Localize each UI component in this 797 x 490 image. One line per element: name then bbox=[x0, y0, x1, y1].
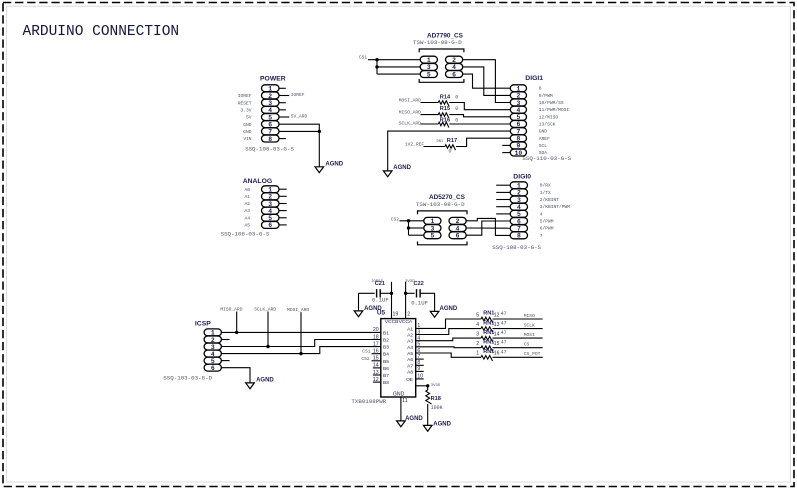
svg-text:6: 6 bbox=[452, 71, 456, 78]
svg-text:6: 6 bbox=[211, 365, 215, 372]
AD5270_CS top bracket bbox=[418, 211, 468, 214]
svg-text:MISO: MISO bbox=[524, 313, 535, 319]
resistor body resistor R14 bbox=[438, 101, 449, 106]
connector POWER pin 8 bbox=[262, 135, 280, 143]
ground AGND digi1 bbox=[383, 165, 411, 177]
svg-text:AREF: AREF bbox=[539, 136, 550, 142]
svg-text:0: 0 bbox=[449, 148, 452, 154]
svg-text:TSW-103-08-G-D: TSW-103-08-G-D bbox=[413, 39, 462, 46]
svg-text:AGND: AGND bbox=[256, 378, 274, 384]
connector POWER pin 2 bbox=[262, 92, 280, 100]
wire DIGI0 pin 3 stub bbox=[496, 199, 510, 201]
svg-text:0: 0 bbox=[455, 118, 458, 124]
svg-text:IOREF: IOREF bbox=[291, 92, 305, 98]
svg-text:2/KBINT: 2/KBINT bbox=[540, 197, 560, 203]
svg-text:AGND: AGND bbox=[364, 306, 382, 312]
svg-text:6: 6 bbox=[456, 233, 460, 240]
connector ANALOG pin 3 bbox=[262, 200, 280, 208]
svg-text:ANALOG: ANALOG bbox=[243, 178, 272, 185]
svg-text:SSQ-106-03-G-S: SSQ-106-03-G-S bbox=[221, 230, 270, 237]
svg-text:AGND: AGND bbox=[433, 422, 451, 428]
svg-text:RN1: RN1 bbox=[483, 330, 494, 336]
connector DIGI0 pin 7 bbox=[510, 225, 527, 233]
resistor body resistor R16 bbox=[438, 122, 449, 127]
svg-text:R18: R18 bbox=[431, 396, 441, 402]
connector ICSP pin 2 bbox=[204, 336, 221, 344]
connector POWER pin 1 bbox=[262, 85, 280, 93]
svg-text:SSQ-108-03-G-S: SSQ-108-03-G-S bbox=[492, 244, 541, 251]
svg-text:TSW-103-08-G-D: TSW-103-08-G-D bbox=[416, 201, 465, 208]
svg-text:1/TX: 1/TX bbox=[540, 190, 551, 196]
wire C22 left wire bbox=[406, 292, 415, 294]
wire ICSP pin3 to U5 B2 bbox=[221, 340, 380, 347]
wire CS2 stub to B5 bbox=[372, 360, 381, 362]
connector DIGI0 pin 2 bbox=[510, 189, 527, 197]
wire POWER pin 8 stub bbox=[279, 138, 286, 140]
connector DIGI0 pin 5 bbox=[510, 210, 527, 218]
junction OE r18 tie bbox=[426, 384, 429, 387]
wire U5 A6 stub bbox=[416, 358, 424, 360]
wire ANALOG pin 2 stub bbox=[279, 195, 287, 197]
wire ICSP pin1 to U5 B1 bbox=[221, 331, 380, 333]
wire DIGI1 pin7 gnd bbox=[388, 131, 511, 171]
svg-text:VCCA: VCCA bbox=[399, 319, 413, 325]
wire DIGI1 pin10 stub bbox=[502, 152, 510, 154]
wire ANALOG pin 1 stub bbox=[279, 188, 287, 190]
wire C21 left wire bbox=[359, 292, 375, 294]
svg-text:SCLK_ARD: SCLK_ARD bbox=[254, 306, 276, 312]
svg-text:3/KBINT/PWM: 3/KBINT/PWM bbox=[540, 204, 571, 210]
svg-text:SSQ-103-03-G-D: SSQ-103-03-G-D bbox=[163, 375, 212, 382]
svg-text:POWER: POWER bbox=[260, 76, 286, 83]
wire R17 to DIGI1 pin8 bbox=[456, 138, 510, 146]
svg-text:A0: A0 bbox=[244, 187, 250, 193]
connector ICSP pin 6 bbox=[204, 364, 221, 372]
wire RN1 row3 out bbox=[493, 337, 543, 339]
wire ANALOG pin 3 stub bbox=[279, 203, 287, 205]
wire U5 pin2 VCCA rail bbox=[405, 282, 407, 319]
wire AD5270 pin6 to DIGI0 pin6 bbox=[466, 221, 510, 235]
wire CS2 to pin5 bbox=[409, 234, 424, 236]
svg-text:A6: A6 bbox=[407, 357, 413, 363]
svg-text:3.3V: 3.3V bbox=[240, 107, 251, 113]
wire ICSP pin2 stub bbox=[221, 339, 229, 341]
wire U5 A7 stub bbox=[416, 364, 424, 366]
svg-text:CS2: CS2 bbox=[361, 356, 370, 362]
wire U5 B8 stub bbox=[373, 381, 381, 383]
resistor body resistor R17 bbox=[445, 145, 456, 150]
capacitor C21 0.1UF bbox=[372, 289, 389, 303]
connector DIGI1 pin 3 bbox=[510, 99, 526, 107]
wire CS1 bus drop bbox=[376, 60, 378, 74]
svg-text:RN1: RN1 bbox=[483, 320, 494, 326]
AD5270_CS pin 4 bbox=[449, 225, 466, 233]
svg-text:5V: 5V bbox=[246, 115, 252, 121]
wire MOSI_ARD to R14 bbox=[421, 102, 439, 104]
svg-text:SSQ-108-03-G-S: SSQ-108-03-G-S bbox=[245, 145, 294, 152]
connector DIGI1 pin 5 bbox=[510, 113, 526, 121]
svg-text:5V_ARD: 5V_ARD bbox=[291, 113, 308, 119]
connector ICSP pin 1 bbox=[204, 329, 221, 337]
connector ANALOG pin 1 bbox=[262, 186, 280, 194]
wire ICSP pin4 to U5 B3 bbox=[221, 347, 380, 354]
svg-text:SCLK_ARD: SCLK_ARD bbox=[399, 121, 421, 127]
wire SCLK_ARD to R16 bbox=[421, 123, 439, 125]
wire ICSP pin6 gnd bbox=[221, 368, 250, 383]
svg-text:12/MISO: 12/MISO bbox=[539, 114, 559, 120]
wire AD5270 pin4 to DIGI0 pin7 bbox=[466, 227, 510, 229]
svg-text:A5: A5 bbox=[407, 351, 413, 357]
svg-text:A1: A1 bbox=[407, 326, 413, 332]
wire CS2 to pin1 bbox=[400, 220, 424, 222]
svg-text:47: 47 bbox=[501, 340, 507, 346]
AD7790_CS pin 6 bbox=[446, 71, 463, 79]
wire ANALOG pin 6 stub bbox=[279, 224, 287, 226]
wire MOSI_ARD drop bbox=[300, 312, 302, 353]
wire U5 pin11 gnd bbox=[400, 397, 402, 421]
junction C21 rail tie bbox=[390, 292, 393, 295]
svg-text:SCLK: SCLK bbox=[524, 322, 535, 328]
svg-text:13/SCK: 13/SCK bbox=[539, 122, 556, 128]
wire 1V2_REF to R17 bbox=[424, 146, 445, 148]
svg-text:RN1: RN1 bbox=[483, 339, 494, 345]
wire DIGI0 pin 4 stub bbox=[496, 206, 510, 208]
connector DIGI1 pin 9 bbox=[510, 142, 526, 150]
svg-text:R14: R14 bbox=[440, 94, 451, 100]
AD7790_CS pin 5 bbox=[420, 71, 437, 79]
svg-text:GND: GND bbox=[393, 392, 405, 398]
capacitor C22 0.1UF bbox=[411, 289, 428, 306]
svg-text:4: 4 bbox=[540, 211, 543, 217]
svg-text:RESET: RESET bbox=[238, 100, 252, 106]
svg-text:IOREF: IOREF bbox=[238, 93, 252, 99]
resistor body resistor RN1 element 1-16 bbox=[481, 356, 493, 361]
connector ANALOG pin 5 bbox=[262, 214, 280, 222]
wire POWER pin 7 gnd bbox=[279, 130, 319, 132]
wire R16 to DIGI1 pin6 bbox=[449, 123, 510, 125]
svg-text:0/RX: 0/RX bbox=[540, 183, 551, 189]
connector DIGI1 pin 2 bbox=[510, 92, 526, 100]
svg-text:A4: A4 bbox=[407, 345, 413, 351]
ground AGND icsp bbox=[246, 378, 275, 389]
svg-text:C22: C22 bbox=[414, 281, 424, 287]
connector ANALOG pin 2 bbox=[262, 193, 280, 201]
AD5270_CS pin 6 bbox=[449, 232, 466, 240]
wire R18 bottom wire bbox=[427, 404, 429, 425]
junction CS1 t2 bbox=[375, 65, 378, 68]
wire U5 A8 stub bbox=[416, 370, 424, 372]
wire U5 B7 stub bbox=[373, 374, 381, 376]
wire ANALOG pin 5 stub bbox=[279, 217, 287, 219]
junction POWER gnd tie bbox=[318, 130, 321, 133]
svg-text:MISO_ARD: MISO_ARD bbox=[399, 109, 421, 115]
svg-text:R16: R16 bbox=[440, 118, 450, 124]
wire MISO_ARD drop bbox=[236, 312, 238, 333]
AD7790_CS pin 1 bbox=[420, 56, 437, 64]
svg-text:8: 8 bbox=[517, 233, 521, 240]
svg-text:10/PWM/SS: 10/PWM/SS bbox=[539, 100, 564, 106]
wire CS2 to pin3 bbox=[409, 227, 424, 229]
svg-text:9/PWM: 9/PWM bbox=[539, 93, 553, 99]
wire CS1 to pin5 bbox=[377, 73, 420, 75]
connector DIGI1 pin 6 bbox=[510, 121, 526, 129]
wire RN1 row4 out bbox=[493, 347, 543, 349]
svg-text:15: 15 bbox=[494, 341, 500, 347]
svg-text:CS1: CS1 bbox=[362, 349, 371, 355]
wire AD7790 pin6 to DIGI1 pin1 bbox=[463, 74, 511, 88]
svg-text:DNI: DNI bbox=[437, 140, 444, 144]
svg-text:VIN: VIN bbox=[243, 136, 252, 142]
wire POWER pin 2 to IOREF bbox=[279, 95, 289, 97]
svg-text:R17: R17 bbox=[447, 138, 457, 144]
svg-text:47: 47 bbox=[501, 330, 507, 336]
resistor body resistor R18 bbox=[426, 390, 432, 404]
svg-text:DIGI0: DIGI0 bbox=[513, 173, 531, 180]
svg-text:CS: CS bbox=[524, 342, 530, 348]
AD5270_CS pin 3 bbox=[424, 225, 441, 233]
wire U5 A5 to RN1 row5 bbox=[416, 353, 481, 357]
AD7790_CS pin 4 bbox=[446, 64, 463, 72]
svg-text:2: 2 bbox=[407, 312, 410, 318]
AD7790_CS pin 3 bbox=[420, 64, 437, 72]
wire POWER pin 3 stub bbox=[279, 102, 286, 104]
svg-text:4: 4 bbox=[476, 322, 479, 328]
svg-text:A4: A4 bbox=[244, 215, 250, 221]
resistor body resistor R15 bbox=[438, 113, 449, 118]
connector POWER pin 7 bbox=[262, 128, 280, 136]
svg-text:6/PWM: 6/PWM bbox=[540, 226, 554, 232]
svg-text:VCCB: VCCB bbox=[385, 319, 399, 325]
wire C21 gnd drop bbox=[358, 293, 360, 311]
resistor body resistor RN1 element 2-15 bbox=[481, 346, 493, 351]
connector POWER pin 3 bbox=[262, 99, 280, 107]
wire POWER pin 6 gnd bbox=[279, 124, 319, 167]
wire U5 OE stub bbox=[416, 378, 424, 380]
ground AGND c21 bbox=[354, 306, 382, 317]
svg-text:7: 7 bbox=[540, 233, 543, 239]
svg-text:B5: B5 bbox=[383, 359, 389, 365]
svg-text:CS2: CS2 bbox=[391, 216, 400, 222]
connector ICSP pin 5 bbox=[204, 357, 221, 365]
wire POWER pin 1 stub bbox=[279, 87, 286, 89]
svg-text:10: 10 bbox=[515, 150, 523, 157]
svg-text:B6: B6 bbox=[383, 366, 389, 372]
svg-text:12: 12 bbox=[494, 312, 500, 318]
AD7790_CS top bracket bbox=[419, 49, 464, 52]
connector DIGI1 pin 4 bbox=[510, 106, 526, 114]
ground AGND u5 bbox=[397, 416, 424, 427]
junction CS2 t1 bbox=[407, 219, 410, 222]
svg-text:SCL: SCL bbox=[539, 143, 548, 149]
svg-text:0.1UF: 0.1UF bbox=[372, 297, 389, 304]
svg-text:3V3D: 3V3D bbox=[431, 384, 441, 388]
ground AGND power bbox=[315, 161, 344, 172]
junction mosi tie bbox=[299, 352, 302, 355]
connector DIGI0 pin 4 bbox=[510, 203, 527, 211]
svg-text:ICSP: ICSP bbox=[195, 321, 211, 328]
wire ICSP pin5 stub bbox=[221, 360, 229, 362]
svg-text:3: 3 bbox=[476, 332, 479, 338]
wire R15 to DIGI1 pin5 bbox=[449, 115, 510, 117]
svg-text:MOSI_ARD: MOSI_ARD bbox=[399, 98, 421, 104]
svg-text:2: 2 bbox=[476, 341, 479, 347]
wire C22 right wire bbox=[420, 293, 435, 311]
resistor body resistor RN1 element 3-14 bbox=[481, 336, 493, 341]
svg-text:5: 5 bbox=[476, 312, 479, 318]
svg-text:A3: A3 bbox=[244, 208, 250, 214]
svg-text:1: 1 bbox=[476, 351, 479, 357]
AD5270_CS pin 2 bbox=[449, 217, 466, 225]
svg-text:AGND: AGND bbox=[440, 306, 458, 312]
svg-text:AGND: AGND bbox=[405, 416, 423, 422]
wire CS2 bus drop bbox=[408, 221, 410, 235]
svg-text:GND: GND bbox=[539, 129, 548, 135]
op-amp U5 body (TXB0108PWR level shifter) bbox=[381, 319, 416, 397]
svg-text:B1: B1 bbox=[383, 330, 389, 336]
wire DIGI0 pin 2 stub bbox=[496, 191, 510, 193]
svg-text:B3: B3 bbox=[383, 345, 389, 351]
wire POWER pin 4 stub bbox=[279, 109, 286, 111]
wire U5 A3 to RN1 row3 bbox=[416, 338, 481, 341]
connector ANALOG pin 6 bbox=[262, 222, 280, 230]
svg-text:SSQ-110-03-G-S: SSQ-110-03-G-S bbox=[522, 155, 571, 162]
connector DIGI1 pin 1 bbox=[510, 85, 526, 93]
wire U5 OE net to R18 bbox=[416, 385, 428, 387]
svg-text:A7: A7 bbox=[407, 363, 413, 369]
svg-text:47: 47 bbox=[501, 321, 507, 327]
junction CS1 t1 bbox=[375, 58, 378, 61]
svg-text:5: 5 bbox=[427, 71, 431, 78]
svg-text:B8: B8 bbox=[383, 380, 389, 386]
svg-text:14: 14 bbox=[494, 332, 500, 338]
wire U5 A4 to RN1 row4 bbox=[416, 346, 481, 349]
connector POWER pin 4 bbox=[262, 106, 280, 114]
svg-text:AGND: AGND bbox=[325, 161, 343, 167]
junction CS2 t2 bbox=[407, 226, 410, 229]
svg-text:R15: R15 bbox=[440, 106, 450, 112]
svg-text:100K: 100K bbox=[431, 405, 443, 411]
svg-text:0.1UF: 0.1UF bbox=[411, 299, 428, 306]
svg-text:GND: GND bbox=[243, 129, 252, 135]
wire CS1 to pin1 bbox=[368, 59, 420, 61]
AD7790_CS bottom bracket bbox=[419, 79, 464, 82]
svg-text:A8: A8 bbox=[407, 369, 413, 375]
svg-text:19: 19 bbox=[393, 312, 399, 318]
connector ICSP pin 3 bbox=[204, 343, 221, 351]
svg-text:CS1: CS1 bbox=[359, 55, 368, 61]
svg-text:47: 47 bbox=[501, 311, 507, 317]
svg-text:TXB0108PWR: TXB0108PWR bbox=[351, 398, 386, 405]
svg-text:47: 47 bbox=[501, 349, 507, 355]
ground AGND r18 bbox=[423, 422, 451, 432]
wire RN1 row1 out bbox=[493, 318, 543, 320]
svg-text:B2: B2 bbox=[383, 338, 389, 344]
wire MISO_ARD to R15 bbox=[421, 114, 439, 116]
wire DIGI0 pin 1 stub bbox=[496, 184, 510, 186]
wire C21 right wire bbox=[380, 292, 391, 294]
AD5270_CS pin 5 bbox=[424, 232, 441, 240]
svg-text:MISO_ARD: MISO_ARD bbox=[220, 306, 242, 312]
svg-text:A1: A1 bbox=[244, 194, 250, 200]
svg-text:ARDUINO CONNECTION: ARDUINO CONNECTION bbox=[23, 24, 180, 40]
connector DIGI1 pin 8 bbox=[510, 135, 526, 143]
svg-text:AGND: AGND bbox=[393, 165, 411, 171]
AD5270_CS bottom bracket bbox=[418, 242, 468, 245]
connector POWER pin 5 bbox=[262, 114, 280, 122]
svg-text:A2: A2 bbox=[244, 201, 250, 207]
wire SCLK_ARD drop bbox=[267, 312, 269, 347]
junction miso tie bbox=[235, 331, 238, 334]
connector ANALOG pin 4 bbox=[262, 207, 280, 215]
wire ANALOG pin 4 stub bbox=[279, 210, 287, 212]
svg-text:16: 16 bbox=[494, 351, 500, 357]
wire DIGI0 pin 5 stub bbox=[496, 213, 510, 215]
svg-text:0: 0 bbox=[455, 94, 458, 100]
wire AD7790 pin2 to DIGI1 pin3 bbox=[463, 60, 511, 103]
resistor body resistor RN1 element 5-12 bbox=[481, 317, 493, 322]
wire RN1 row2 out bbox=[493, 328, 543, 330]
svg-text:8: 8 bbox=[539, 86, 542, 92]
svg-text:13: 13 bbox=[494, 322, 500, 328]
connector DIGI0 pin 6 bbox=[510, 218, 527, 226]
svg-text:B4: B4 bbox=[383, 352, 389, 358]
connector ICSP pin 4 bbox=[204, 350, 221, 358]
wire POWER pin 5 to 5V_ARD bbox=[279, 116, 289, 118]
svg-text:OE: OE bbox=[406, 377, 413, 383]
wire U5 A1 to RN1 row1 bbox=[416, 319, 481, 328]
svg-text:RN1: RN1 bbox=[483, 349, 494, 355]
wire DIGI1 pin9 stub bbox=[502, 144, 510, 146]
wire CS1 stub to B4 bbox=[372, 353, 381, 355]
svg-text:RN1: RN1 bbox=[483, 311, 494, 317]
connector DIGI0 pin 1 bbox=[510, 182, 527, 190]
wire RN1 row5 out bbox=[493, 356, 543, 358]
svg-text:MOSI: MOSI bbox=[524, 332, 535, 338]
wire CS1 to pin3 bbox=[377, 66, 420, 68]
connector DIGI0 pin 8 bbox=[510, 232, 527, 240]
connector POWER pin 6 bbox=[262, 121, 280, 129]
svg-text:B7: B7 bbox=[383, 373, 389, 379]
svg-text:DIGI1: DIGI1 bbox=[525, 75, 543, 82]
svg-text:GND: GND bbox=[243, 122, 252, 128]
junction sclk tie bbox=[266, 345, 269, 348]
AD5270_CS pin 1 bbox=[424, 217, 441, 225]
svg-text:1V2_REF: 1V2_REF bbox=[405, 141, 425, 147]
wire U5 B6 stub bbox=[373, 367, 381, 369]
wire AD7790 pin4 to DIGI1 pin2 bbox=[463, 67, 511, 96]
svg-text:8: 8 bbox=[268, 136, 272, 143]
svg-text:A5: A5 bbox=[244, 223, 250, 229]
svg-text:A2: A2 bbox=[407, 333, 413, 339]
resistor body resistor RN1 element 4-13 bbox=[481, 327, 493, 332]
connector DIGI1 pin 7 bbox=[510, 128, 526, 136]
svg-text:5/PWM: 5/PWM bbox=[540, 219, 554, 225]
svg-text:6: 6 bbox=[268, 222, 272, 229]
wire U5 A2 to RN1 row2 bbox=[416, 329, 481, 335]
wire R14 to DIGI1 pin4 bbox=[449, 103, 510, 110]
connector DIGI0 pin 3 bbox=[510, 196, 527, 204]
AD7790_CS pin 2 bbox=[446, 56, 463, 64]
wire AD5270 pin2 to DIGI0 pin8 bbox=[466, 218, 510, 235]
connector DIGI1 pin 10 bbox=[510, 149, 526, 157]
wire R18 top wire bbox=[427, 386, 429, 390]
svg-text:CS_POT: CS_POT bbox=[524, 351, 541, 357]
svg-text:5: 5 bbox=[430, 233, 434, 240]
wire U5 pin19 VCCB rail bbox=[391, 282, 393, 319]
ground AGND c22 bbox=[430, 306, 458, 317]
svg-text:11: 11 bbox=[402, 398, 407, 404]
svg-text:11/PWM/MOSI: 11/PWM/MOSI bbox=[539, 107, 570, 113]
